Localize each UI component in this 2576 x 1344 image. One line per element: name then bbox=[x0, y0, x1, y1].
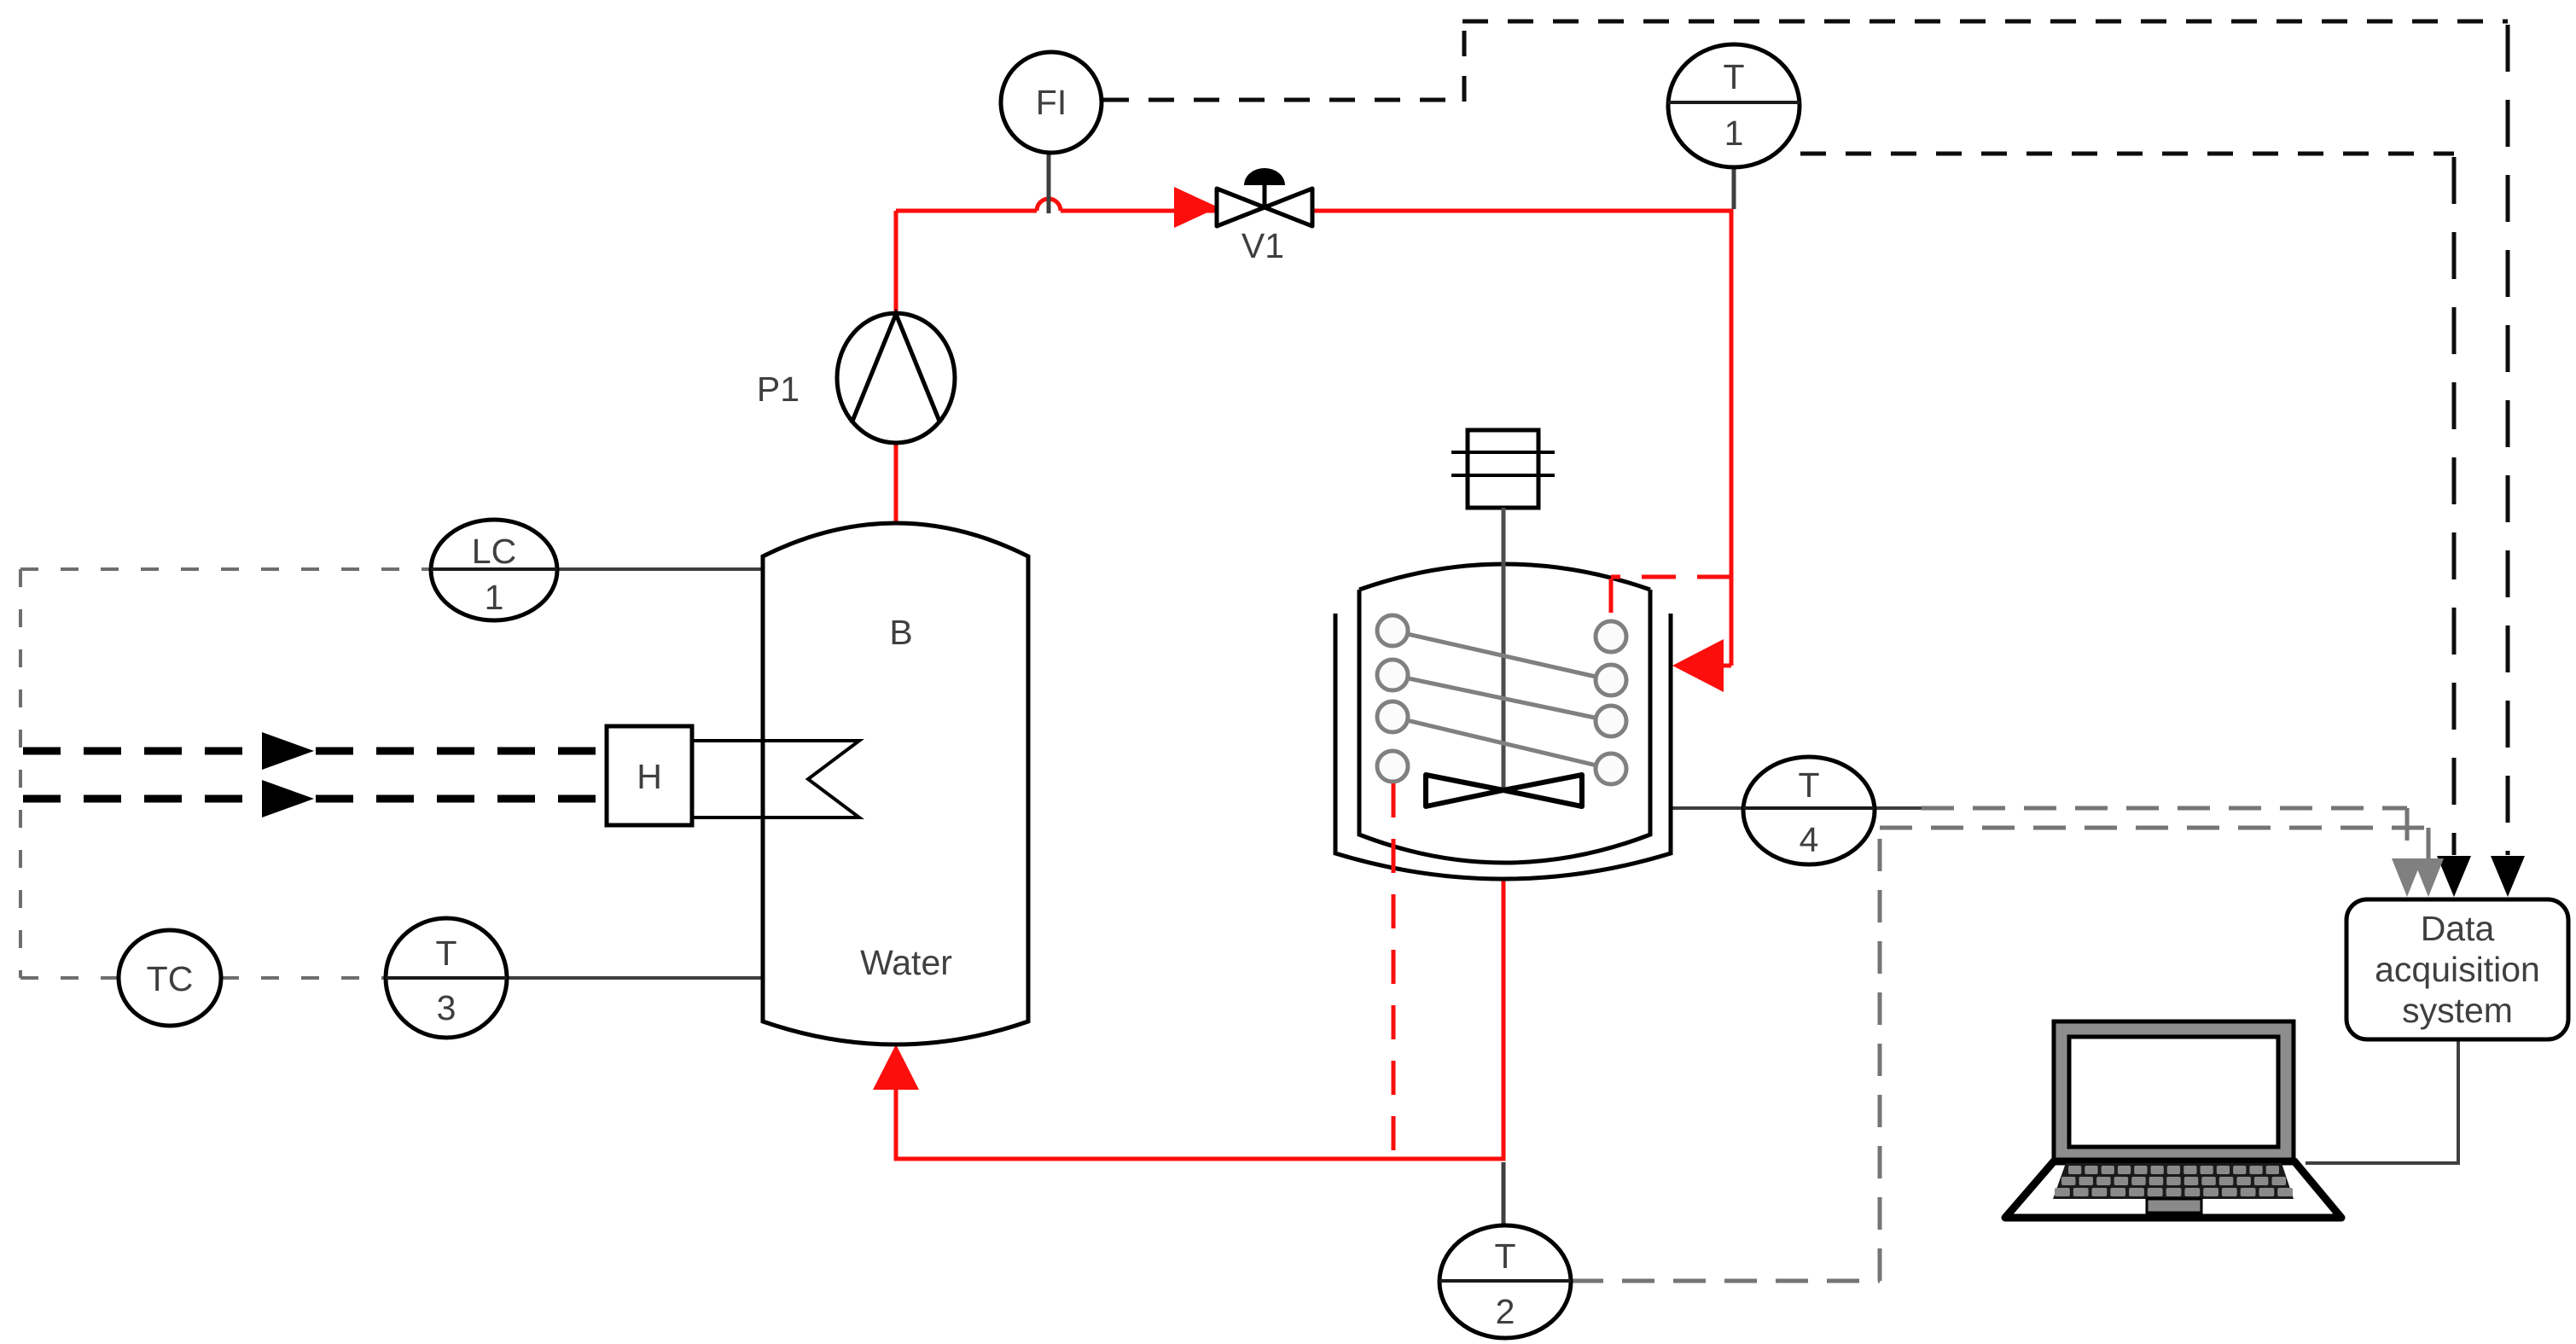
svg-text:1: 1 bbox=[1724, 113, 1744, 153]
svg-text:T: T bbox=[435, 934, 456, 973]
svg-text:acquisition: acquisition bbox=[2375, 950, 2540, 989]
svg-text:Water: Water bbox=[860, 943, 952, 982]
svg-text:TC: TC bbox=[147, 959, 194, 998]
svg-text:V1: V1 bbox=[1241, 226, 1284, 265]
svg-text:FI: FI bbox=[1036, 83, 1067, 122]
svg-text:T: T bbox=[1723, 57, 1744, 96]
svg-text:P1: P1 bbox=[757, 369, 800, 409]
svg-text:Data: Data bbox=[2421, 909, 2495, 948]
svg-text:3: 3 bbox=[437, 988, 456, 1027]
svg-text:2: 2 bbox=[1496, 1292, 1515, 1331]
svg-text:LC: LC bbox=[472, 532, 516, 571]
svg-text:4: 4 bbox=[1800, 820, 1819, 859]
svg-text:T: T bbox=[1798, 765, 1819, 805]
svg-text:system: system bbox=[2402, 991, 2513, 1030]
svg-text:H: H bbox=[637, 757, 662, 796]
svg-text:1: 1 bbox=[485, 578, 504, 617]
svg-text:B: B bbox=[889, 613, 912, 652]
svg-text:T: T bbox=[1494, 1236, 1515, 1276]
